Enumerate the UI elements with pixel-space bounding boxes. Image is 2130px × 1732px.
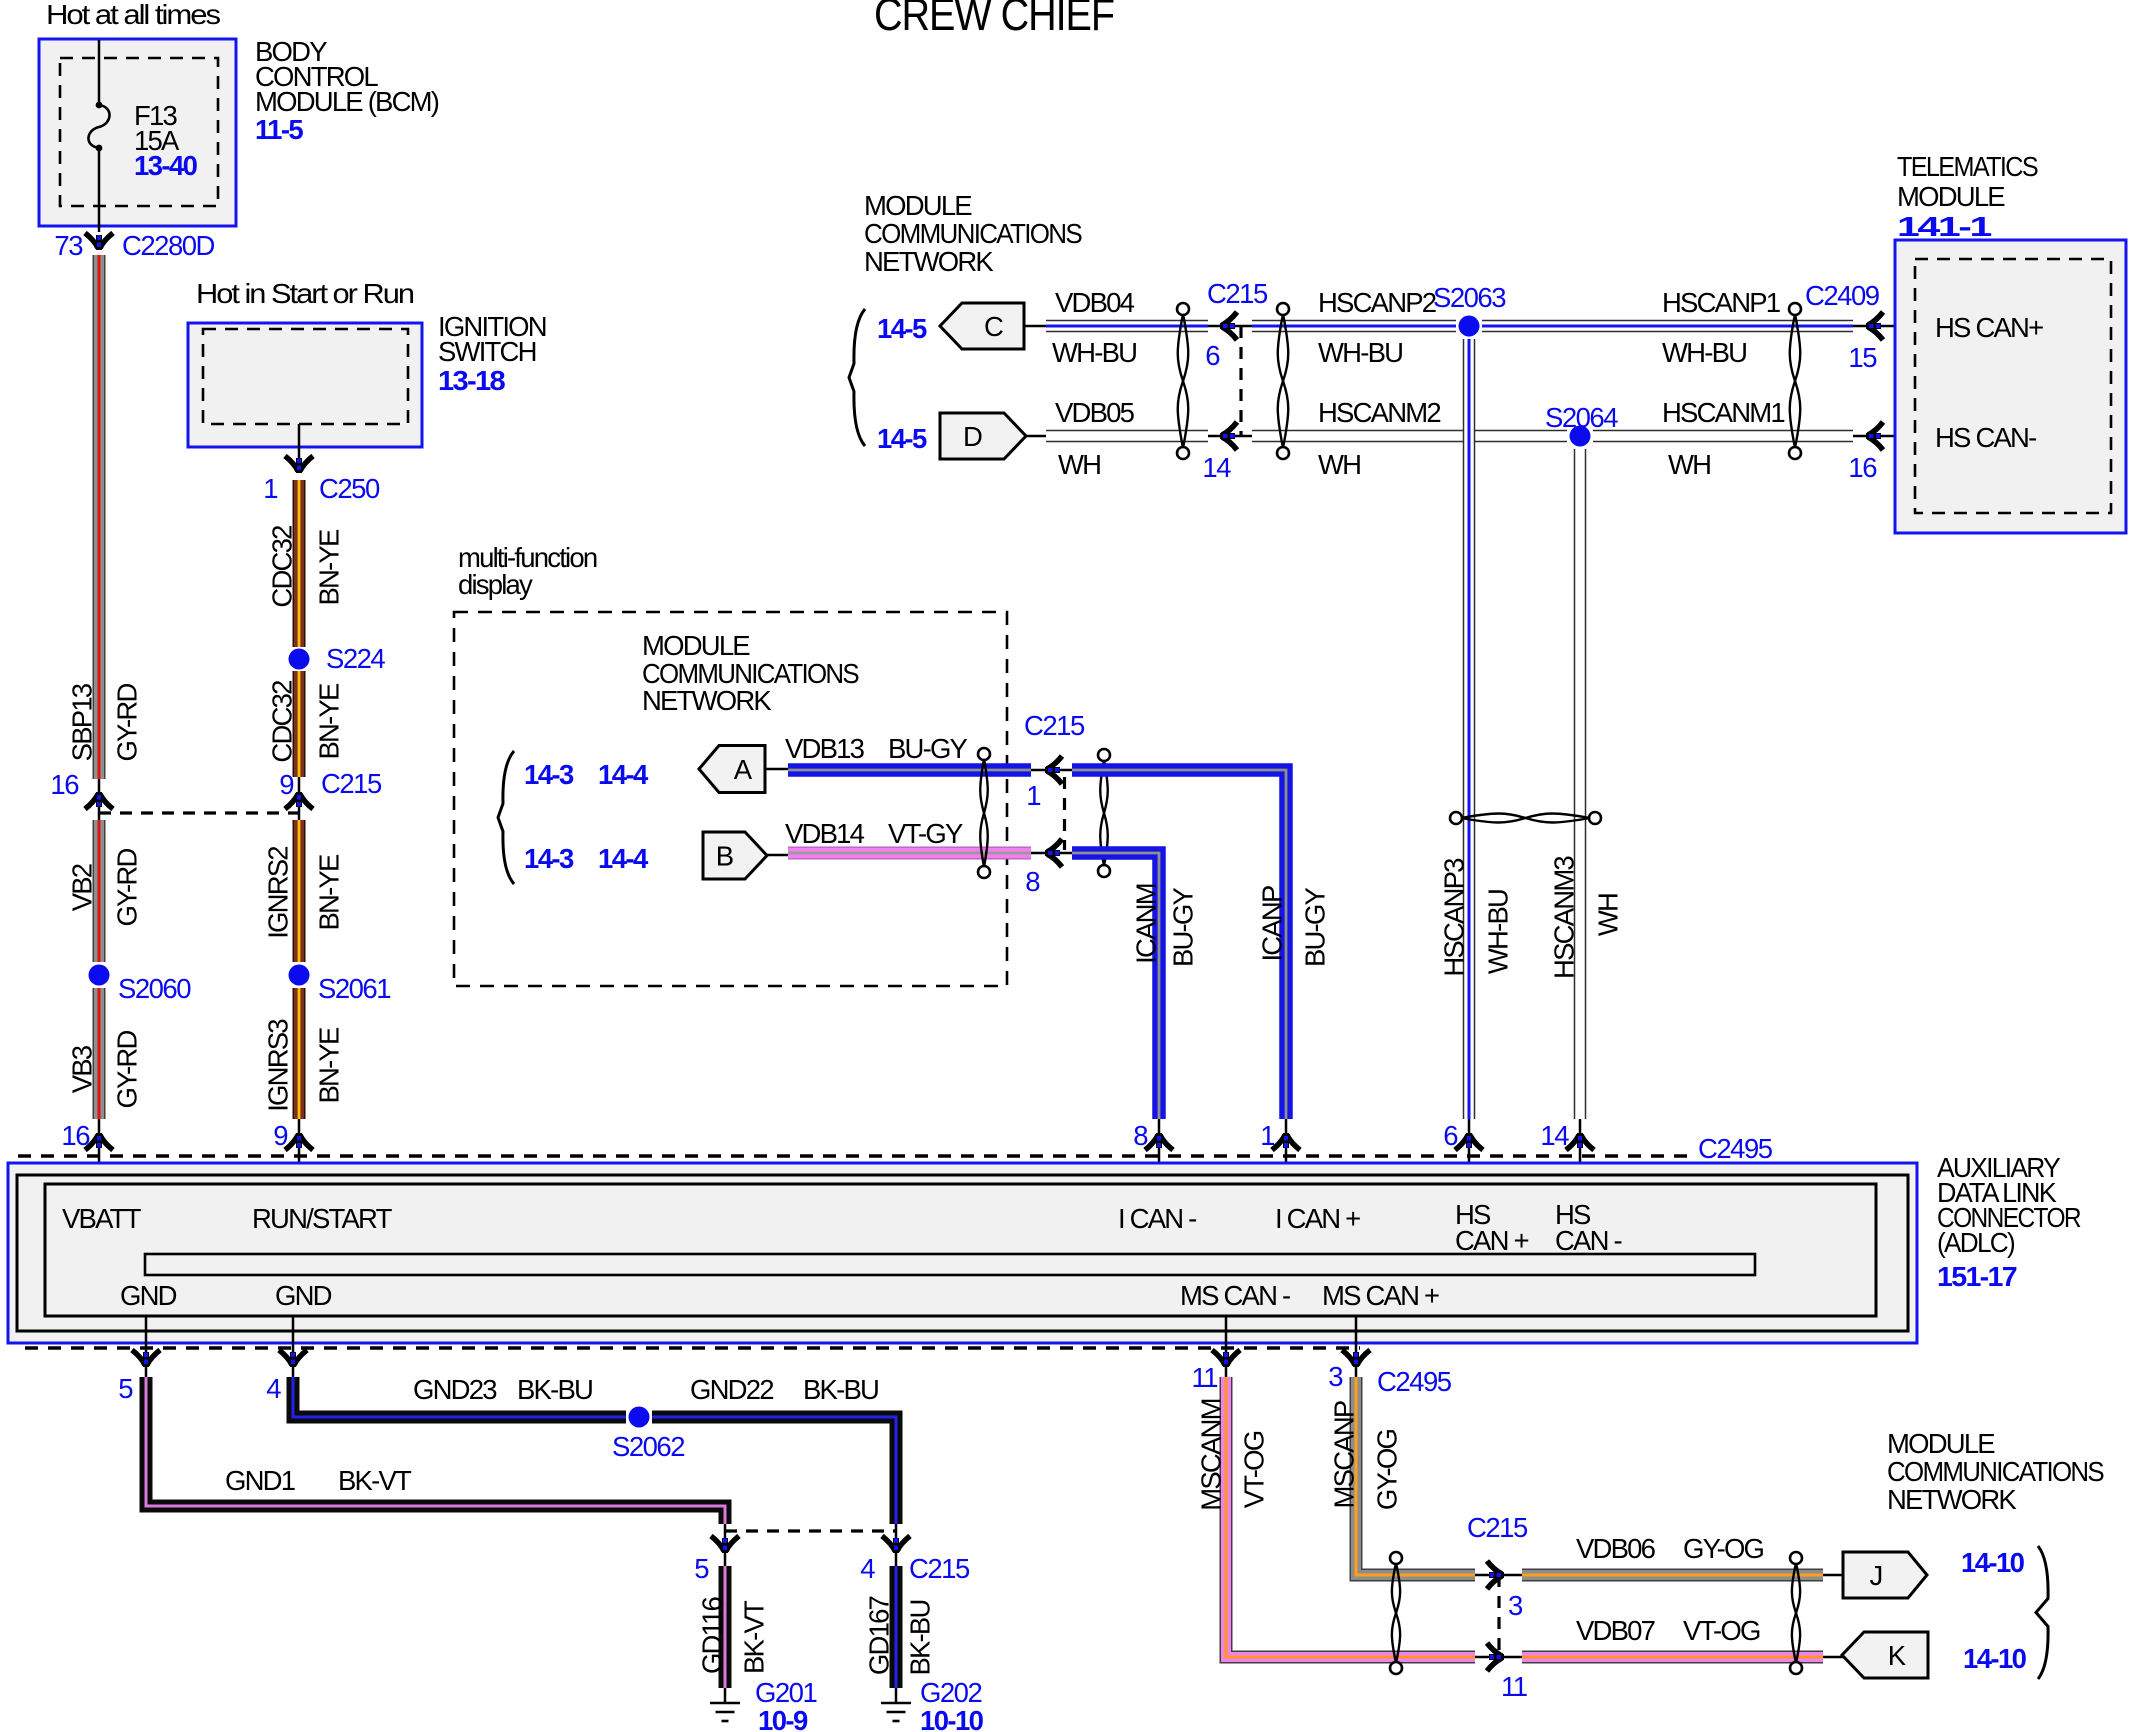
svg-text:BK-BU: BK-BU [904,1600,935,1675]
wire GD116 BK-VT [719,1566,732,1688]
svg-text:9: 9 [273,1120,287,1151]
svg-text:BK-VT: BK-VT [338,1465,412,1496]
svg-text:SBP13: SBP13 [66,683,97,761]
svg-text:11: 11 [1501,1671,1527,1702]
svg-text:SWITCH: SWITCH [438,336,536,367]
svg-text:6: 6 [1443,1120,1458,1151]
svg-text:VDB06: VDB06 [1576,1533,1656,1564]
svg-text:3: 3 [1508,1590,1523,1621]
svg-text:WH: WH [1592,894,1623,936]
svg-text:J: J [1870,1560,1882,1591]
wire CDC32 BN-YE upper [293,480,306,647]
twisted pair loop C/D right of C215 [1277,303,1289,315]
svg-text:VDB04: VDB04 [1055,287,1135,318]
svg-text:14-10: 14-10 [1963,1643,2027,1674]
svg-text:MODULE: MODULE [642,630,750,661]
svg-text:10-9: 10-9 [758,1705,808,1732]
svg-text:S2061: S2061 [318,973,390,1004]
svg-text:Hot in Start or Run: Hot in Start or Run [196,278,414,309]
svg-text:14: 14 [1540,1120,1569,1151]
svg-text:S224: S224 [326,643,385,674]
connector C2495 bottom dashed line [25,1346,1360,1349]
svg-text:CDC32: CDC32 [266,681,297,763]
connector C215 pin 9 [298,777,301,820]
twisted pair loops C/D left [1177,303,1189,315]
svg-text:ICANM: ICANM [1130,884,1161,964]
svg-text:73: 73 [54,230,83,261]
svg-text:S2064: S2064 [1545,402,1618,433]
svg-text:WH: WH [1668,449,1710,480]
svg-text:GND23: GND23 [413,1374,497,1405]
splice S224 [289,649,310,670]
svg-text:BN-YE: BN-YE [313,683,344,760]
svg-text:16: 16 [50,769,79,800]
svg-text:16: 16 [1848,452,1877,483]
twisted pair loop at telematics [1789,303,1801,315]
svg-text:BK-BU: BK-BU [803,1374,878,1405]
splice S2060 [89,965,110,986]
wire HSCANP3 WH-BU vertical [1463,339,1476,1119]
svg-text:14-4: 14-4 [598,843,649,874]
svg-text:BN-YE: BN-YE [313,854,344,931]
fuse F13 15A [96,102,103,109]
svg-text:MSCANP: MSCANP [1328,1401,1359,1508]
svg-text:MODULE: MODULE [864,190,972,221]
svg-text:I CAN +: I CAN + [1275,1203,1360,1234]
ADLC pin 4 GND [292,1316,295,1377]
svg-text:K: K [1888,1640,1907,1671]
svg-text:A: A [734,754,753,785]
svg-text:5: 5 [118,1373,133,1404]
svg-text:151-17: 151-17 [1937,1261,2017,1292]
svg-text:1: 1 [263,473,277,504]
svg-text:VDB13: VDB13 [785,733,865,764]
svg-text:GND22: GND22 [690,1374,773,1405]
svg-text:VT-GY: VT-GY [888,818,963,849]
wire MSCANP GY-OG [1356,1377,1475,1575]
wire HSCANP2 WH-BU [1252,320,1456,333]
wire VDB06 GY-OG [1522,1569,1823,1582]
twisted pair loop horizontal [1450,812,1462,824]
brace J/K rows [2036,1546,2048,1679]
svg-text:VT-OG: VT-OG [1238,1431,1269,1508]
svg-text:VBATT: VBATT [62,1203,142,1234]
svg-text:HSCANP1: HSCANP1 [1662,287,1780,318]
svg-text:11: 11 [1191,1362,1217,1393]
tag A [699,746,765,793]
svg-text:HSCANP2: HSCANP2 [1318,287,1436,318]
C215 pin 14 arrow [1208,435,1252,438]
svg-text:HSCANM2: HSCANM2 [1318,397,1440,428]
svg-text:C2280D: C2280D [122,230,215,261]
C215 dashed vertical A/B [1063,777,1066,850]
svg-text:GND1: GND1 [225,1465,295,1496]
svg-text:VDB07: VDB07 [1576,1615,1655,1646]
tag C [940,303,1024,349]
twisted pair loop bottom left of C215 [1390,1552,1402,1564]
BCM module box [39,39,236,226]
svg-text:NETWORK: NETWORK [1887,1484,2017,1515]
ADLC pin 16 VBATT [98,1119,101,1184]
C215 pin 3 arrow [1475,1574,1522,1577]
wire VDB05 WH [1026,435,1050,438]
svg-text:C: C [984,311,1003,342]
wire ICANM BU-GY [1072,853,1159,1119]
svg-text:8: 8 [1025,866,1040,897]
wire GND23 BK-BU [293,1377,626,1417]
ADLC pin 1 I CAN + [1285,1119,1288,1184]
svg-text:WH-BU: WH-BU [1482,890,1513,974]
svg-text:MSCANM: MSCANM [1195,1399,1226,1510]
svg-text:CREW CHIEF: CREW CHIEF [874,0,1114,40]
svg-text:GD167: GD167 [863,1596,894,1675]
svg-text:D: D [963,421,982,452]
splice S2064 [1570,426,1591,447]
C215 pin 5 arrow [724,1524,727,1566]
svg-text:C2409: C2409 [1805,280,1879,311]
wire VB3 GY-RD [93,988,106,1119]
svg-text:C250: C250 [319,473,380,504]
svg-text:13-40: 13-40 [134,150,198,181]
wire VDB13 BU-GY [765,768,788,771]
wire stub from ignition switch [298,424,301,459]
svg-text:(ADLC): (ADLC) [1937,1227,2015,1258]
wire VDB14 VT-GY [767,854,788,857]
svg-text:GY-RD: GY-RD [111,849,142,927]
svg-text:Hot at all times: Hot at all times [46,0,220,30]
tag D [940,413,1026,459]
svg-text:MODULE: MODULE [1887,1428,1995,1459]
svg-text:VB3: VB3 [66,1045,97,1093]
splice S2061 [289,965,310,986]
svg-text:C215: C215 [321,768,382,799]
ADLC pin 11 MS CAN - [1225,1316,1228,1377]
svg-text:VB2: VB2 [66,864,97,911]
svg-text:S2060: S2060 [118,973,191,1004]
svg-text:C215: C215 [1467,1512,1528,1543]
ADLC pin 3 MS CAN + [1355,1316,1358,1377]
connector C215 pin 16 [98,779,101,820]
twisted pair loop right bottom [1790,1552,1802,1564]
C215 pin 6 arrow [1208,325,1252,328]
svg-text:14-3: 14-3 [524,843,574,874]
ignition switch box [188,323,422,447]
svg-text:WH-BU: WH-BU [1318,337,1402,368]
svg-text:13-18: 13-18 [438,365,505,396]
C215 pin 4 arrow [895,1524,898,1566]
svg-text:HS CAN-: HS CAN- [1935,422,2036,453]
svg-text:GY-RD: GY-RD [111,1031,142,1109]
svg-text:3: 3 [1328,1361,1343,1392]
svg-text:WH: WH [1058,449,1100,480]
wire ICANP BU-GY [1072,770,1286,1119]
svg-text:GD116: GD116 [696,1596,727,1674]
wire GND22 BK-BU [652,1417,896,1524]
svg-text:MODULE (BCM): MODULE (BCM) [255,86,439,117]
C215 dashed vertical bottom right [1497,1575,1500,1657]
wire HSCANM2 WH [1252,430,1567,443]
wire SBP13 GY-RD [93,255,106,779]
svg-text:4: 4 [860,1553,875,1584]
svg-text:HSCANP3: HSCANP3 [1438,858,1469,977]
tag B [703,832,767,879]
svg-text:G201: G201 [755,1677,816,1708]
connector C250 pin 1 [285,456,313,473]
svg-text:HSCANM1: HSCANM1 [1662,397,1784,428]
svg-text:VDB05: VDB05 [1055,397,1135,428]
connector C215 bottom dashed link [725,1529,896,1532]
svg-text:1: 1 [1026,780,1040,811]
svg-text:BN-YE: BN-YE [313,529,344,606]
wire GD167 BK-BU [890,1566,903,1688]
svg-text:MS CAN -: MS CAN - [1180,1280,1290,1311]
splice S2063 [1459,316,1480,337]
svg-text:CAN -: CAN - [1555,1225,1622,1256]
svg-text:MS CAN +: MS CAN + [1322,1280,1439,1311]
svg-text:C2495: C2495 [1698,1133,1773,1164]
wire CDC32 BN-YE lower [293,671,306,777]
svg-text:ICANP: ICANP [1256,886,1287,962]
svg-text:S2063: S2063 [1433,282,1506,313]
svg-text:WH-BU: WH-BU [1052,337,1136,368]
wire MSCANM VT-OG [1226,1377,1475,1657]
wire inside BCM [98,40,101,105]
wire VB2 GY-RD [93,820,106,962]
twisted pair loops A/B [978,748,990,760]
svg-text:C215: C215 [1024,710,1085,741]
svg-text:8: 8 [1133,1120,1148,1151]
svg-text:C215: C215 [1207,278,1268,309]
brace C/D rows [849,309,865,446]
svg-text:GND: GND [275,1280,332,1311]
svg-text:16: 16 [61,1120,90,1151]
C215 pin 8 arrow [1031,852,1072,855]
svg-text:BU-GY: BU-GY [1299,887,1330,967]
svg-text:C215: C215 [909,1553,970,1584]
ADLC pin 14 HS CAN - [1579,1119,1582,1184]
ADLC pin 9 RUN/START [298,1119,301,1184]
svg-text:CDC32: CDC32 [266,526,297,608]
C215 pin 11 arrow [1475,1656,1522,1659]
ADLC pin 5 GND [145,1316,148,1377]
tag K [1823,1656,1844,1659]
svg-text:GND: GND [120,1280,177,1311]
svg-text:1: 1 [1260,1120,1274,1151]
wire GND1 BK-VT [146,1377,725,1524]
svg-text:display: display [458,569,533,600]
svg-text:NETWORK: NETWORK [864,246,994,277]
svg-text:HSCANM3: HSCANM3 [1548,856,1579,979]
svg-text:NETWORK: NETWORK [642,685,772,716]
svg-text:RUN/START: RUN/START [252,1203,393,1234]
svg-text:GY-RD: GY-RD [111,684,142,762]
wire HSCANM3 WH vertical [1574,449,1587,1119]
svg-text:CAN +: CAN + [1455,1225,1529,1256]
svg-text:5: 5 [694,1553,709,1584]
ADLC inner bar [145,1254,1755,1275]
svg-text:14-10: 14-10 [1961,1547,2025,1578]
ADLC pin 8 I CAN - [1158,1119,1161,1184]
connector C2280D pin 73 [85,233,113,250]
svg-text:15: 15 [1848,342,1877,373]
svg-text:WH: WH [1318,449,1360,480]
svg-text:VT-OG: VT-OG [1683,1615,1760,1646]
wire VDB04 WH-BU [1024,325,1050,328]
svg-text:14: 14 [1202,452,1231,483]
ground G202 [895,1688,898,1703]
svg-text:BK-VT: BK-VT [738,1600,769,1674]
ground G201 [724,1688,727,1703]
ADLC pin 6 HS CAN + [1468,1119,1471,1184]
C215 dashed vertical C/D [1239,326,1242,436]
svg-text:14-4: 14-4 [598,759,649,790]
splice S2062 [629,1407,650,1428]
tag J [1823,1574,1845,1577]
svg-text:11-5: 11-5 [255,114,303,145]
svg-text:14-3: 14-3 [524,759,574,790]
C2409 pin 15 arrow [1853,325,1935,328]
svg-text:141-1: 141-1 [1897,211,1992,242]
wire IGNRS3 BN-YE [293,988,306,1119]
svg-text:GY-OG: GY-OG [1683,1533,1764,1564]
svg-text:6: 6 [1205,340,1220,371]
wire IGNRS2 BN-YE [293,820,306,962]
connector C215 dashed link [99,811,299,814]
svg-text:G202: G202 [920,1677,981,1708]
svg-text:HS CAN+: HS CAN+ [1935,312,2043,343]
svg-text:MODULE: MODULE [1897,181,2005,212]
svg-text:VDB14: VDB14 [785,818,865,849]
svg-text:BU-GY: BU-GY [1167,887,1198,967]
C2409 pin 16 arrow [1853,435,1935,438]
svg-text:9: 9 [279,769,293,800]
multi-function display dashed box [454,612,1007,986]
svg-text:WH-BU: WH-BU [1662,337,1746,368]
svg-text:TELEMATICS: TELEMATICS [1897,151,2038,182]
ADLC box [8,1163,1917,1343]
telematics module box [1895,240,2126,533]
C215 pin 1 arrow [1031,769,1072,772]
svg-text:GY-OG: GY-OG [1371,1430,1402,1511]
brace A/B rows [498,751,514,884]
svg-text:BK-BU: BK-BU [517,1374,592,1405]
svg-text:COMMUNICATIONS: COMMUNICATIONS [1887,1456,2104,1487]
svg-text:14-5: 14-5 [877,313,927,344]
svg-text:14-5: 14-5 [877,423,927,454]
svg-text:COMMUNICATIONS: COMMUNICATIONS [864,218,1082,249]
svg-text:4: 4 [266,1373,281,1404]
svg-text:S2062: S2062 [612,1431,684,1462]
svg-text:10-10: 10-10 [920,1705,984,1732]
svg-text:IGNRS3: IGNRS3 [262,1019,293,1112]
wire VDB07 VT-OG [1522,1651,1823,1664]
svg-text:BN-YE: BN-YE [313,1027,344,1104]
svg-text:C2495: C2495 [1377,1366,1452,1397]
svg-text:I CAN -: I CAN - [1118,1203,1196,1234]
connector C2495 dashed line [18,1154,1692,1157]
svg-text:BU-GY: BU-GY [888,733,968,764]
svg-text:IGNRS2: IGNRS2 [262,847,293,939]
svg-text:B: B [716,840,733,871]
